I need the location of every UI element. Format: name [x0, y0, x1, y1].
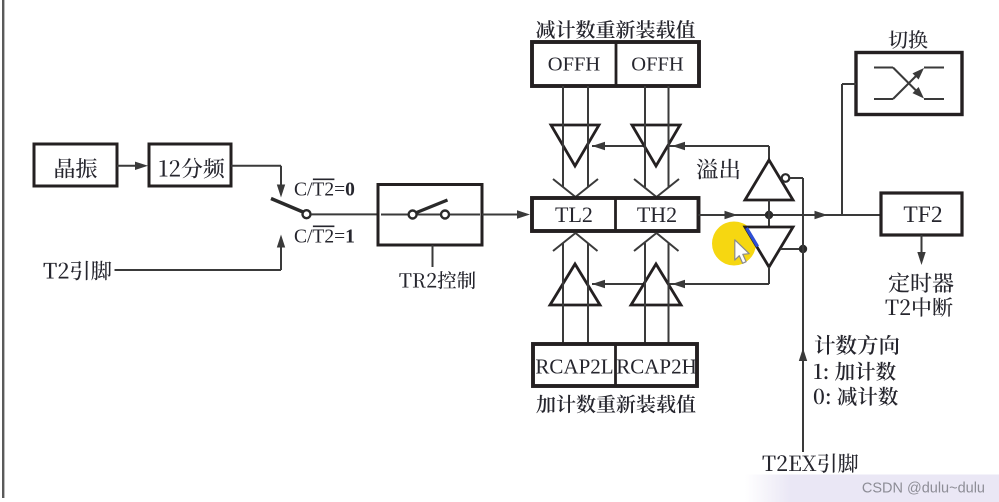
label T2EX引脚	[763, 454, 859, 473]
mouse cursor	[735, 240, 749, 264]
label 减计数重新装载值	[536, 20, 695, 39]
register OFFH outer box	[532, 42, 699, 86]
switch TR2 lever	[417, 200, 448, 213]
register TL2/TH2 divider	[614, 199, 617, 230]
wire TR2 control stub	[432, 245, 434, 267]
box TF2	[881, 193, 962, 235]
label T2中断	[886, 297, 953, 316]
label TF2	[903, 202, 942, 228]
node T2 pin label T2引脚	[44, 261, 112, 281]
arrowhead into buffer U2	[672, 280, 685, 288]
label RCAP2L	[535, 355, 613, 379]
arrowhead into buffer D1	[592, 142, 605, 150]
label TH2	[637, 202, 677, 227]
register TL2/TH2 outer box	[532, 198, 699, 231]
arrow TF2 to interrupt	[917, 235, 925, 265]
wire 12分频 to C/T2 switch	[231, 166, 285, 198]
register RCAP divider	[614, 345, 617, 385]
box 切换 (swap)	[856, 53, 962, 115]
buffer U4 (overflow down)	[745, 227, 793, 267]
wire through TR2 box	[381, 214, 480, 216]
wire bubble to T2EX line	[790, 177, 804, 179]
wire control to U3 apex	[768, 146, 770, 160]
funnel arrow into TH2	[634, 179, 679, 197]
svg-text:OFFH: OFFH	[631, 54, 684, 76]
funnel arrow out of TL2	[553, 233, 598, 251]
switch C/T2 contact	[303, 210, 311, 218]
label TL2	[555, 202, 593, 227]
box 12分频 (divide by 12)	[149, 144, 231, 186]
control line up-count reload	[592, 266, 769, 284]
junction dot on T2EX line	[799, 245, 807, 253]
svg-text:RCAP2L: RCAP2L	[535, 355, 613, 379]
label OFFH high	[631, 54, 684, 76]
svg-text:TL2: TL2	[555, 202, 593, 227]
bus RCAP2H to TH2	[645, 243, 669, 344]
bus RCAP2L to TL2	[563, 243, 588, 344]
buffer U1 (capture TL2)	[550, 264, 600, 305]
svg-text:C/T2=1: C/T2=1	[294, 227, 355, 248]
inverter bubble on U3	[782, 174, 790, 182]
svg-text:C/T2=0: C/T2=0	[294, 180, 355, 201]
page border line	[2, 0, 4, 498]
svg-text:TH2: TH2	[637, 202, 677, 227]
funnel arrow into TL2	[553, 179, 598, 197]
wire arrow 晶振 to 12分频	[117, 162, 148, 170]
arrowhead into buffer D2	[672, 142, 685, 150]
cursor highlight circle	[712, 222, 756, 266]
wire U4 apex down	[768, 267, 770, 284]
box TR2 control	[378, 185, 482, 246]
switch TR2 contact right	[441, 211, 449, 219]
buffer D2 (reload TH2)	[632, 125, 680, 166]
wire U4 control to T2EX line	[781, 248, 804, 250]
label 1: 加计数	[814, 362, 895, 381]
box 晶振 (crystal)	[34, 144, 117, 186]
label 溢出	[697, 159, 739, 180]
wire switch to TR2 box	[311, 213, 378, 215]
label 0: 减计数	[814, 387, 898, 406]
label OFFH low	[548, 54, 601, 76]
wire T2EX vertical	[799, 178, 807, 452]
label C/T2=1	[294, 226, 355, 247]
register OFFH divider	[615, 43, 618, 85]
register RCAP outer box	[533, 344, 697, 386]
watermark background strip	[745, 475, 999, 502]
wire arrow TR2 to TL2	[482, 210, 530, 218]
label C/T2=0	[294, 179, 355, 200]
bus OFFH to TL2	[563, 86, 588, 187]
label RCAP2H	[616, 355, 697, 379]
buffer D1 (reload TL2)	[551, 125, 599, 166]
junction dot at overflow	[765, 211, 773, 219]
highlighted edge of U4	[747, 228, 758, 247]
control line down-count reload	[592, 145, 769, 147]
buffer U2 (capture TH2)	[631, 264, 681, 305]
label 定时器	[889, 273, 954, 293]
label 切换	[889, 30, 928, 49]
wire T2引脚 to C/T2 switch	[115, 235, 286, 271]
switch TR2 contact left	[409, 211, 417, 219]
buffer U3 (overflow up)	[745, 160, 793, 200]
arrowhead into buffer U1	[592, 280, 605, 288]
funnel arrow out of TH2	[634, 233, 679, 251]
svg-text:OFFH: OFFH	[548, 54, 601, 76]
wire main TH2 to TF2	[699, 211, 882, 219]
svg-text:RCAP2H: RCAP2H	[616, 355, 697, 379]
label 加计数重新装载值	[536, 395, 695, 414]
switch C/T2 lever	[271, 199, 303, 213]
bus OFFH to TH2	[645, 86, 669, 187]
svg-text:CSDN @dulu~dulu: CSDN @dulu~dulu	[862, 481, 985, 497]
label TR2控制	[399, 271, 475, 289]
wire U3 base to U4 top	[768, 200, 770, 227]
svg-text:TF2: TF2	[903, 202, 942, 228]
wire 切换 to main line	[842, 84, 856, 215]
swap cross symbol	[874, 68, 944, 100]
watermark text CSDN	[862, 481, 985, 497]
label 计数方向	[815, 335, 899, 355]
